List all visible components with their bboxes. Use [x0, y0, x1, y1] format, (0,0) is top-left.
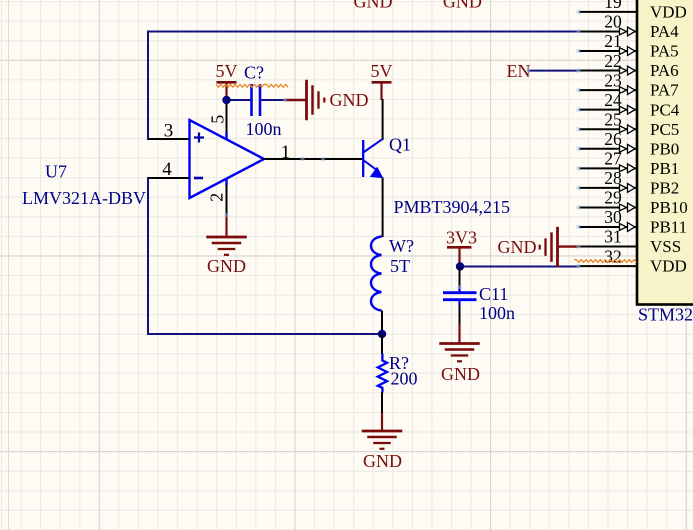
svg-text:VDD: VDD: [650, 3, 687, 22]
value 5T: [390, 256, 410, 276]
compile-error squiggle on VDD pin 32 wire: [574, 260, 636, 263]
ground GND (VSS pin 31): [498, 227, 580, 268]
svg-text:5V: 5V: [371, 61, 393, 81]
pin 29 PB10: [579, 203, 637, 212]
svg-text:PB1: PB1: [650, 159, 679, 178]
op-amp U7 pin 5: [226, 100, 228, 140]
pin name PC4: [650, 100, 680, 119]
pin number 19: [604, 0, 622, 12]
svg-text:LMV321A-DBV: LMV321A-DBV: [22, 188, 146, 208]
pin number 29: [604, 188, 622, 208]
svg-text:100n: 100n: [246, 119, 282, 139]
designator Q1: [389, 134, 411, 154]
svg-text:PB10: PB10: [650, 198, 688, 217]
svg-text:3V3: 3V3: [446, 227, 477, 247]
wire: node to C11: [459, 267, 461, 289]
svg-text:GND: GND: [363, 451, 402, 471]
pin 24 PC4: [579, 105, 637, 114]
pin name PA6: [650, 61, 679, 80]
svg-text:20: 20: [604, 12, 622, 32]
sheet border edge line: [8, 0, 10, 530]
junction at op-amp pin 5 node: [222, 96, 230, 104]
designator C?: [244, 62, 264, 82]
pin number 26: [604, 129, 622, 149]
wire: node to R?: [381, 334, 383, 354]
svg-text:27: 27: [604, 149, 622, 169]
IC type STM32L (clipped): [638, 304, 693, 324]
pin 20 PA4: [579, 27, 637, 36]
svg-text:19: 19: [604, 0, 622, 12]
power 5V (op-amp): [216, 61, 238, 100]
wire: op-amp pin 3 up and across to PA4: [148, 32, 579, 141]
svg-text:PC5: PC5: [650, 120, 679, 139]
pin number 21: [604, 31, 622, 51]
pin number 23: [604, 70, 622, 90]
value 200: [391, 368, 418, 388]
wire: C? right plate to GND lead: [260, 99, 285, 101]
svg-text:2: 2: [207, 193, 227, 202]
svg-text:5T: 5T: [390, 256, 410, 276]
svg-text:PC4: PC4: [650, 100, 680, 119]
pin 26 PB0: [579, 144, 637, 153]
pin number 25: [604, 109, 622, 129]
pin 31 VSS: [579, 246, 637, 248]
svg-text:24: 24: [604, 90, 622, 110]
op-amp U7 body: [190, 120, 265, 198]
svg-text:GND: GND: [443, 0, 482, 12]
svg-text:1: 1: [281, 142, 291, 163]
designator R?: [389, 353, 409, 373]
svg-text:100n: 100n: [479, 303, 515, 323]
resistor R?: [378, 354, 387, 393]
pin 23 PA7: [579, 86, 637, 95]
pin name PA4: [650, 22, 679, 41]
svg-text:32: 32: [604, 246, 622, 266]
pin number 20: [604, 12, 622, 32]
IC STM32 body: [637, 0, 693, 305]
svg-text:3: 3: [164, 120, 174, 141]
op-amp U7 pin 4: [148, 177, 189, 179]
junction at W?/R? node: [378, 330, 386, 338]
wire: C11 to GND: [459, 306, 461, 326]
inductor W?: [371, 237, 382, 311]
wire: op-amp pin 4 feedback down to W?/R? node: [148, 177, 381, 334]
pin number 3: [164, 120, 174, 141]
pin name PA7: [650, 81, 679, 100]
wire: R? to GND: [381, 392, 383, 414]
svg-text:GND: GND: [330, 90, 369, 110]
wire: junction to C? left plate: [227, 99, 252, 101]
svg-text:STM32L4: STM32L4: [638, 304, 693, 324]
pin 27 PB1: [579, 164, 637, 173]
designator W?: [389, 236, 414, 256]
svg-text:PB2: PB2: [650, 178, 679, 197]
pin number 4: [162, 159, 172, 180]
svg-text:26: 26: [604, 129, 622, 149]
svg-text:31: 31: [604, 227, 622, 247]
svg-text:4: 4: [162, 159, 172, 180]
pin number 1: [281, 142, 291, 163]
wire: 3V3 node to VDD pin 32: [460, 266, 579, 268]
value PMBT3904,215: [394, 197, 511, 217]
pin name PB11: [650, 218, 687, 237]
ground GND (top left, clipped): [354, 0, 393, 12]
value 100n (C11): [479, 303, 515, 323]
svg-text:PA4: PA4: [650, 22, 679, 41]
wire: EN to PA6 pin 22: [528, 70, 579, 72]
pin number 32: [604, 246, 622, 266]
svg-text:C11: C11: [479, 284, 508, 304]
svg-text:30: 30: [604, 207, 622, 227]
wire hotspot marks: [225, 10, 581, 289]
svg-text:22: 22: [604, 51, 622, 71]
svg-text:VSS: VSS: [650, 237, 681, 256]
svg-text:PMBT3904,215: PMBT3904,215: [394, 197, 511, 217]
compile-error squiggle under C?: [216, 84, 288, 87]
pin name PB10: [650, 198, 688, 217]
wire: W? to node: [381, 311, 383, 335]
pin number 30: [604, 207, 622, 227]
svg-text:VDD: VDD: [650, 257, 687, 276]
svg-text:C?: C?: [244, 62, 264, 82]
svg-text:GND: GND: [354, 0, 393, 12]
pin name VDD: [650, 3, 687, 22]
pin name PA5: [650, 42, 679, 61]
pin 28 PB2: [579, 183, 637, 192]
svg-text:5: 5: [208, 115, 228, 124]
ground GND (below C11): [439, 324, 480, 384]
value LMV321A-DBV: [22, 188, 146, 208]
svg-text:23: 23: [604, 70, 622, 90]
pin number 22: [604, 51, 622, 71]
svg-text:W?: W?: [389, 236, 414, 256]
svg-text:GND: GND: [207, 256, 246, 276]
pin number 5: [208, 115, 228, 124]
svg-text:PB0: PB0: [650, 139, 679, 158]
op-amp U7 pin 3: [148, 138, 189, 140]
svg-text:21: 21: [604, 31, 622, 51]
svg-text:200: 200: [391, 368, 418, 388]
designator C11: [479, 284, 508, 304]
pin 22 PA6: [579, 66, 637, 75]
pin 30 PB11: [579, 223, 637, 232]
ground GND (top right, clipped): [443, 0, 482, 12]
pin 21 PA5: [579, 47, 637, 56]
svg-text:PA5: PA5: [650, 42, 679, 61]
svg-text:28: 28: [604, 168, 622, 188]
net label EN: [507, 61, 531, 81]
svg-text:PB11: PB11: [650, 218, 687, 237]
pin name PC5: [650, 120, 679, 139]
svg-text:5V: 5V: [216, 61, 238, 81]
pin name VSS: [650, 237, 681, 256]
ground GND (below R?): [362, 413, 403, 471]
svg-text:25: 25: [604, 109, 622, 129]
svg-text:U7: U7: [45, 161, 67, 181]
pin name PB2: [650, 178, 679, 197]
value 100n (C?): [246, 119, 282, 139]
pin 25 PC5: [579, 125, 637, 134]
pin number 28: [604, 168, 622, 188]
svg-text:PA6: PA6: [650, 61, 679, 80]
ground GND (below op-amp): [206, 216, 247, 276]
pin number 31: [604, 227, 622, 247]
capacitor C11: [443, 287, 477, 306]
op-amp U7 pin 2: [225, 179, 227, 218]
pin name PB1: [650, 159, 679, 178]
svg-text:GND: GND: [441, 364, 480, 384]
svg-text:PA7: PA7: [650, 81, 679, 100]
pin number 24: [604, 90, 622, 110]
pin name PB0: [650, 139, 679, 158]
op-amp U7 pin 1 output and Q1 base wire: [263, 158, 363, 160]
pin number 27: [604, 149, 622, 169]
capacitor C?: [252, 84, 261, 116]
power 5V (Q1 collector): [371, 61, 393, 100]
svg-text:GND: GND: [498, 237, 537, 257]
junction at 3V3/C11/VDD node: [456, 262, 464, 270]
pin 32 VDD: [579, 265, 637, 267]
wire: 5V to Q1 collector: [382, 99, 384, 140]
svg-text:29: 29: [604, 188, 622, 208]
pin name VDD: [650, 257, 687, 276]
designator U7: [45, 161, 67, 181]
pin 19 VDD: [579, 11, 637, 13]
power 3V3: [446, 227, 477, 266]
pin number 2: [207, 193, 227, 202]
ground GND (right of C?): [285, 80, 369, 121]
transistor Q1: [363, 139, 383, 178]
svg-text:Q1: Q1: [389, 134, 411, 154]
wire: Q1 emitter to W?: [382, 178, 384, 238]
